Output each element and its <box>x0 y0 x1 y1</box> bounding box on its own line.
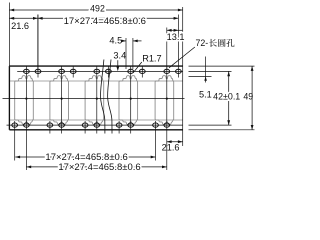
top oblong hole 2 <box>35 69 41 73</box>
hole column centerline 5 (full height) <box>166 66 168 170</box>
slot plateau line extension (for 5.1 dim) <box>189 75 212 77</box>
rail top edge <box>9 65 182 67</box>
top hole row centerline <box>17 70 183 72</box>
dim 4.5: left arrow line <box>123 40 126 42</box>
top hole centerline stub 5 <box>177 15 179 72</box>
slot 1 center mark <box>25 98 27 100</box>
slot 5 center mark <box>166 98 168 100</box>
hole column centerline 2 (full height) <box>61 66 63 133</box>
top hole centerline stub 1 <box>37 15 39 72</box>
top oblong hole 9 <box>164 69 170 73</box>
top oblong hole 4 <box>70 69 76 73</box>
slot cutout outline 5 (grey) <box>155 76 174 120</box>
dim 21.6 top: extension line at first top hole <box>37 15 39 72</box>
bottom hole row centerline <box>7 124 183 126</box>
top oblong hole 6 <box>106 69 112 73</box>
svg-text:5.1: 5.1 <box>199 90 212 100</box>
svg-text:4.5: 4.5 <box>109 36 122 46</box>
bottom hole centerline stub 2 <box>49 121 51 134</box>
bottom oblong hole 10 <box>164 123 170 127</box>
hole column centerline 3 (full height) <box>96 66 98 133</box>
dim 4.5: extension lines <box>125 38 127 69</box>
top hole centerline stub 2 <box>72 66 74 77</box>
dim 21.6 bottom: dimension line <box>167 141 183 143</box>
bottom oblong hole 5 <box>82 123 88 127</box>
bend line lower (grey) <box>9 119 182 121</box>
rail left edge <box>8 66 10 130</box>
svg-text:21.6: 21.6 <box>11 21 29 31</box>
bottom oblong hole 3 <box>47 123 53 127</box>
bottom oblong hole 6 <box>94 123 100 127</box>
dim 3.4: leader with down arrow <box>117 60 119 67</box>
svg-text:R1.7: R1.7 <box>142 53 161 63</box>
slot cutout outline 2 (grey) <box>50 76 69 120</box>
CJK glyph chang <box>209 39 217 47</box>
top oblong hole 5 <box>94 69 100 73</box>
rail bottom edge <box>9 129 182 131</box>
svg-text:42±0.1: 42±0.1 <box>213 92 240 102</box>
dim 492: extension line left <box>8 3 10 67</box>
bottom oblong hole 8 <box>128 123 134 127</box>
top oblong hole 3 <box>59 69 65 73</box>
svg-text:17×27.4=465.8±0.6: 17×27.4=465.8±0.6 <box>64 16 146 27</box>
bottom hole centerline stub 1 <box>14 121 16 161</box>
dim 13.1: extension line left <box>166 28 168 70</box>
dim 492: extension line right / rail end edge <box>182 7 184 146</box>
bottom hole centerline stub 4 <box>118 121 120 134</box>
dim 42±0.1: dimension line <box>228 71 230 125</box>
dim 17x27.4 bottom row1: dimension line <box>15 156 155 158</box>
slot cutout outline 4 (grey) <box>119 76 138 120</box>
dim 21.6 top: dimension line <box>9 17 37 19</box>
svg-text:17×27.4=465.8±0.6: 17×27.4=465.8±0.6 <box>58 162 140 173</box>
dim 17x27.4 bottom row2: dimension line <box>26 166 166 168</box>
bottom oblong hole 4 <box>59 123 65 127</box>
bottom oblong hole 9 <box>153 123 159 127</box>
bend line upper (grey) <box>9 80 182 82</box>
hole column centerline 4 (full height) <box>130 66 132 133</box>
slot 4 center mark <box>130 98 132 100</box>
dim 4.5: right arrow line <box>133 40 142 42</box>
slot 2 center mark <box>61 98 63 100</box>
bottom oblong hole 2 <box>24 123 30 127</box>
CJK glyph kong <box>226 39 234 47</box>
R1.7 leader line <box>133 62 142 73</box>
slot cutout outline 3 (grey) <box>85 76 104 120</box>
dim 49: dimension line <box>251 66 253 130</box>
rail top edge extension (to 49 dim) <box>189 65 255 67</box>
rail bottom edge extension (to 49 dim) <box>189 129 255 131</box>
bottom oblong hole 7 <box>116 123 122 127</box>
svg-text:492: 492 <box>90 4 105 14</box>
hole column centerline 1 (full height) <box>25 66 27 170</box>
break line right <box>108 60 112 134</box>
bottom hole centerline stub 3 <box>84 121 86 134</box>
top hole row extension (to 42 dim) <box>189 70 232 72</box>
top oblong hole 1 <box>24 69 30 73</box>
top hole centerline stub 3 <box>107 66 109 77</box>
dim 13.1: dimension line <box>167 29 183 31</box>
CJK glyph yuan <box>218 39 225 47</box>
dim 492: dimension line <box>9 9 182 11</box>
top oblong hole 7 <box>128 69 134 73</box>
top oblong hole 8 <box>139 69 145 73</box>
slot cutout outline 1 (grey) <box>15 76 34 120</box>
svg-text:49: 49 <box>243 92 253 102</box>
72 leader line <box>169 47 195 68</box>
break line left <box>101 60 105 134</box>
bottom oblong hole 1 <box>12 123 18 127</box>
slot 3 center mark <box>96 98 98 100</box>
rail mid centerline <box>3 98 185 100</box>
bottom hole centerline stub 5 <box>155 121 157 161</box>
svg-text:13.1: 13.1 <box>167 32 185 42</box>
svg-text:3.4: 3.4 <box>113 51 126 61</box>
dim 5.1: vertical line with arrows <box>205 57 207 77</box>
dim 17x27.4 top: dimension line <box>38 17 179 19</box>
bottom hole row extension (to 42 dim) <box>189 124 232 126</box>
top hole centerline stub 4 <box>141 66 143 77</box>
svg-text:21.6: 21.6 <box>162 143 180 153</box>
svg-text:72-: 72- <box>196 38 209 48</box>
top oblong hole 10 <box>176 69 182 73</box>
